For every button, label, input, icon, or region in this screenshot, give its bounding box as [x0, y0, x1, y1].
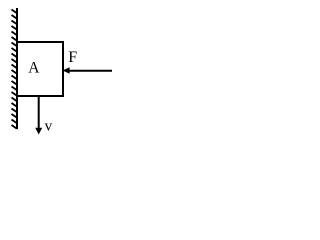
svg-text:A: A	[28, 60, 40, 77]
svg-text:v: v	[45, 118, 53, 134]
svg-text:F: F	[68, 49, 77, 66]
